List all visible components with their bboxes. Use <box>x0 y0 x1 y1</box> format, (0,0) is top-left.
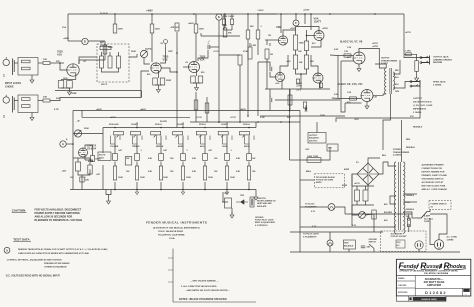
label fuse <box>424 215 433 224</box>
bias bracket <box>106 190 111 195</box>
wire tone column 5 foot <box>204 182 206 190</box>
svg-text:BLK: BLK <box>382 155 387 157</box>
svg-text:56K: 56K <box>250 26 254 28</box>
svg-text:SWITCH: SWITCH <box>369 242 377 244</box>
grid network box channel 1 <box>18 58 38 76</box>
svg-text:FENDER MUSICAL INSTRUMENTS: FENDER MUSICAL INSTRUMENTS <box>146 221 207 225</box>
labels below tone pots <box>110 145 250 148</box>
wire filter caps top <box>352 186 374 190</box>
label power transformer <box>393 149 410 157</box>
output jack J3 <box>420 56 430 65</box>
svg-text:ACCESSORY OUTLET: ACCESSORY OUTLET <box>422 181 445 184</box>
wire V1B cathode bottom <box>155 85 163 87</box>
wire V1B cathode <box>157 73 159 78</box>
ground arrow under bracket <box>108 195 110 199</box>
label caution text <box>35 209 83 223</box>
wire coupling down to tone rail <box>176 32 178 128</box>
wire rail drop x196 <box>195 14 197 24</box>
resistor R50 22K <box>80 177 90 182</box>
wire PI bottom out <box>332 97 340 100</box>
svg-text:10K: 10K <box>70 177 74 179</box>
svg-text:100K: 100K <box>299 43 305 45</box>
label to 6L6 filaments <box>305 204 317 214</box>
potentiometer P9 eq3 <box>240 132 250 138</box>
svg-text:30K POT: 30K POT <box>309 140 318 142</box>
wire tone column 3 lower <box>160 162 162 167</box>
wire ch1 box ground stub <box>31 75 33 77</box>
svg-text:2.2M: 2.2M <box>251 45 256 47</box>
wire V4A bottom <box>85 160 93 162</box>
svg-text:33K: 33K <box>56 61 60 63</box>
svg-text:NOTES: UNLESS OTHERWISE SPECI: NOTES: UNLESS OTHERWISE SPECIFIED <box>179 298 227 301</box>
wire y36 link <box>201 35 240 37</box>
node A note circle <box>4 247 10 253</box>
potentiometer P7 eq1 <box>196 132 206 138</box>
wire tone column 5 upper <box>204 136 206 154</box>
svg-text:100K: 100K <box>186 177 191 179</box>
label to pilot light <box>303 234 320 239</box>
svg-text:1000PF: 1000PF <box>177 124 185 126</box>
resistor R21 270K <box>238 55 242 65</box>
wire eq net wiring <box>73 157 90 159</box>
ground V2A cathode <box>195 85 199 91</box>
hum balance pot <box>343 240 355 249</box>
svg-text:BALANCE: BALANCE <box>344 244 354 247</box>
capacitor C7b .1 600V <box>230 19 233 25</box>
wire rail drop x248 <box>247 14 249 30</box>
svg-text:CONNECTIONS FOR: CONNECTIONS FOR <box>422 168 443 170</box>
svg-text:F: F <box>295 21 297 25</box>
wire R26 bottom <box>266 59 268 89</box>
wire accessory drop <box>418 249 420 252</box>
capacitor C20 .047 <box>113 154 118 161</box>
wire ch2 box ground stub <box>31 113 33 115</box>
ground switch S2 <box>369 239 378 249</box>
svg-text:6.3V: 6.3V <box>352 225 357 227</box>
wire V9 cathode <box>366 102 368 104</box>
diode CR7 zener box <box>225 198 232 208</box>
wire x296 drop <box>295 14 297 20</box>
wire to output jack <box>404 54 422 57</box>
ground zener <box>230 212 234 218</box>
capacitor C23 .1 <box>181 154 186 161</box>
wire x258 long drop <box>257 62 259 116</box>
wire bridge top lead <box>368 158 380 163</box>
svg-text:6L6GC V6, V7, V8: 6L6GC V6, V7, V8 <box>340 40 363 44</box>
svg-text:33K: 33K <box>43 97 47 99</box>
wire R31 links <box>289 89 291 111</box>
node D <box>82 38 88 44</box>
svg-text:REVERB: REVERB <box>433 62 443 64</box>
ground bracket <box>107 198 111 204</box>
wire R26 top <box>266 40 268 45</box>
svg-text:+172V: +172V <box>196 117 203 119</box>
svg-text:12AT7: 12AT7 <box>314 19 322 23</box>
svg-text:80MF: 80MF <box>342 185 348 187</box>
svg-text:1: 1 <box>3 74 5 78</box>
resistor R53 footswitch net <box>88 165 92 174</box>
svg-text:CHOKE: CHOKE <box>5 85 14 88</box>
svg-text:6.8K: 6.8K <box>236 158 241 160</box>
triode V4A 12AU7A <box>79 145 97 158</box>
triode V1B 7025 <box>151 55 169 74</box>
svg-text:700Ω: 700Ω <box>99 157 104 159</box>
svg-text:FULLERTON, CALIFORNIA: FULLERTON, CALIFORNIA <box>424 272 449 275</box>
svg-text:10PF: 10PF <box>168 51 174 53</box>
wire rail drop x115 <box>114 14 116 24</box>
svg-text:BIAS: BIAS <box>306 170 311 173</box>
labels T1 secondary colors <box>384 195 415 222</box>
wire tone stack top rail <box>103 127 256 129</box>
wire driver bottom rail <box>265 88 330 90</box>
svg-text:2: 2 <box>3 115 5 119</box>
wire tone stack bottom rail <box>103 189 256 191</box>
bridge rectifier CR1-CR4 <box>357 163 379 185</box>
wire mid rail left drop <box>72 111 74 169</box>
wire ch2 box to R7 <box>38 100 43 102</box>
svg-text:READING TAKEN WITH AC SIGNAL F: READING TAKEN WITH AC SIGNAL FOR 10 WATT… <box>18 248 108 251</box>
svg-text:200 WATTS R.M.S.: 200 WATTS R.M.S. <box>413 101 432 104</box>
wire C9 to x219 <box>210 46 219 48</box>
svg-text:+470V: +470V <box>354 182 361 185</box>
wire V3B plate <box>280 55 288 72</box>
resistor R41 100K <box>113 166 116 180</box>
svg-text:1.5K: 1.5K <box>347 47 352 49</box>
wire filament run <box>300 206 328 208</box>
svg-text:D-2407: D-2407 <box>381 62 389 65</box>
svg-text:+160: +160 <box>275 83 279 85</box>
resistor R60 bias 15K <box>372 210 376 219</box>
wire switch fuse run <box>345 213 409 215</box>
wire OT bottom to power transformer <box>383 94 391 150</box>
wire PI bottoms join <box>296 69 307 74</box>
node dots on rail right <box>280 13 376 15</box>
svg-text:+70.6: +70.6 <box>296 90 301 92</box>
fender rogers rhodes logo <box>399 261 467 271</box>
svg-text:+250V: +250V <box>290 28 297 30</box>
svg-text:+460V: +460V <box>188 22 195 25</box>
svg-text:OUTLET SOCKET: OUTLET SOCKET <box>391 236 408 238</box>
svg-text:5.6K: 5.6K <box>334 94 339 96</box>
pilot lamp I1 <box>327 240 333 246</box>
node junction dots on B+ rail <box>114 13 259 15</box>
svg-text:250K A: 250K A <box>199 123 206 126</box>
capacitor C41 filter 80MF <box>363 190 368 201</box>
resistor R42 100K <box>135 166 138 180</box>
svg-text:100K: 100K <box>118 177 123 179</box>
wire OT secondary taps <box>393 60 400 74</box>
svg-text:D.C. VOLTAGES READ WITH NO SIG: D.C. VOLTAGES READ WITH NO SIGNAL INPUT <box>6 275 61 278</box>
svg-text:+470V: +470V <box>110 116 117 119</box>
node dots y122 <box>218 121 282 123</box>
label FENDER MUSICAL INSTRUMENTS <box>146 221 207 241</box>
wire x305 drop <box>304 14 306 24</box>
capacitor C9 .1 coupling <box>207 43 210 49</box>
svg-text:V1A: V1A <box>57 52 62 56</box>
wire x219 to PI <box>219 47 240 55</box>
wire node A stub <box>66 143 73 145</box>
capacitor C25 .1 <box>225 154 230 161</box>
node dots x289 <box>289 110 291 123</box>
wire V4A cathode <box>84 157 86 160</box>
wire rail drop x152 <box>151 14 153 24</box>
wire V2A plate <box>195 33 197 61</box>
resistor R35 grid stopper 2 <box>350 97 357 100</box>
svg-text:CHARLIE GRAY: CHARLIE GRAY <box>421 298 437 301</box>
svg-text:4 AMP: 4 AMP <box>424 215 431 218</box>
vertical pair x250 <box>249 43 251 47</box>
wire V5A plate <box>296 27 320 31</box>
svg-text:100K: 100K <box>230 177 235 179</box>
svg-text:1300 E. VALENCIA DRIVE: 1300 E. VALENCIA DRIVE <box>158 230 184 233</box>
resistor R16 100K plate V2A <box>194 24 204 33</box>
revision table border <box>168 249 256 303</box>
wire bright box out <box>129 54 137 57</box>
label drawing number D12682 <box>425 288 470 296</box>
resistor R19 470K <box>205 103 209 113</box>
wire to node D <box>68 40 82 42</box>
svg-text:+460V: +460V <box>96 108 103 111</box>
svg-text:500 PF: 500 PF <box>100 45 108 47</box>
svg-text:TREBLE: TREBLE <box>132 146 140 148</box>
wire V2A plate out <box>198 50 208 61</box>
wire mid drops to y122 <box>248 39 258 55</box>
svg-text:GRN/BLK: GRN/BLK <box>406 209 415 211</box>
wire to speaker jack <box>401 82 411 89</box>
svg-text:100K: 100K <box>140 177 145 179</box>
label TEST DATA heading <box>13 238 31 242</box>
svg-text:POWER: POWER <box>393 149 401 151</box>
wire bridge leads <box>352 174 357 186</box>
svg-text:MIDDLE: MIDDLE <box>156 146 164 148</box>
label output jack <box>433 56 452 65</box>
wire eq net drop 2 <box>89 158 91 165</box>
resistor R20 47K <box>223 28 232 37</box>
wire power upper rail <box>290 231 383 233</box>
wire V1A plate drop <box>78 60 80 64</box>
svg-text:CARD 80 MFD 600 CAPACITOR IN S: CARD 80 MFD 600 CAPACITOR IN SERIES WITH… <box>18 252 90 255</box>
title block frame <box>396 259 470 296</box>
label output power spec <box>413 98 433 114</box>
svg-text:25MF: 25MF <box>72 93 78 95</box>
svg-text:6.8K: 6.8K <box>236 171 241 173</box>
speaker jack J4 <box>410 80 420 88</box>
capacitor C35 footswitch net <box>76 162 81 171</box>
svg-text:22K: 22K <box>310 61 314 63</box>
wire AC plug lead 2 <box>439 218 447 240</box>
labels above tone rail <box>109 123 250 126</box>
potentiometer volume 250KA <box>140 47 152 57</box>
beam tetrode V6 6L6GC <box>353 52 365 64</box>
wire hum balance leads <box>348 249 350 252</box>
svg-text:2. ALL CAPACITOR VALUES IN MFD: 2. ALL CAPACITOR VALUES IN MFD <box>181 285 217 288</box>
wire mid power column lower <box>299 227 301 252</box>
wire tone column 3 upper <box>160 136 162 154</box>
svg-text:6.8K: 6.8K <box>148 171 153 173</box>
wire rail y116 right part <box>260 115 345 117</box>
svg-text:+460V: +460V <box>146 10 153 13</box>
svg-text:400Hz: 400Hz <box>244 145 250 148</box>
wire jack1 to grid box <box>14 62 18 64</box>
wire V9 screen <box>345 102 362 104</box>
svg-text:+170V: +170V <box>230 117 237 119</box>
wire PI top out <box>330 54 338 57</box>
label AC cord <box>447 236 458 242</box>
label product of CBS caption <box>400 270 459 276</box>
svg-text:1.5K: 1.5K <box>373 97 378 99</box>
power switch dashed box <box>429 201 451 210</box>
wire tone column 7 foot <box>248 182 250 190</box>
svg-text:TRANSFORMER: TRANSFORMER <box>381 59 398 62</box>
svg-text:E: E <box>218 15 220 19</box>
wire cathode pair top <box>61 79 76 81</box>
wire C14 drop <box>269 89 271 98</box>
label accessory outlet <box>391 232 408 238</box>
triode V5A 12AT7 <box>314 17 325 41</box>
label speaker jack <box>433 81 446 87</box>
wire node E drop <box>218 20 220 47</box>
ground V1A cathode <box>68 89 72 95</box>
svg-text:+40: +40 <box>77 120 80 123</box>
svg-text:+460V: +460V <box>63 37 70 40</box>
wire C14 to rail <box>269 102 271 110</box>
triode V1A 7025 <box>57 50 79 77</box>
svg-text:25MF: 25MF <box>166 80 172 82</box>
wire zener to ground <box>231 208 233 214</box>
capacitor C6 coupling top <box>164 40 168 48</box>
label CAUTION heading <box>12 208 27 212</box>
wire balance to PI <box>316 122 318 133</box>
resistor R30 22K <box>304 55 308 69</box>
wire left column to bottom rail <box>72 168 74 190</box>
resistor R43 100K <box>159 166 162 180</box>
svg-text:CAUTION: CAUTION <box>12 208 26 212</box>
wire V2B grid <box>265 39 278 41</box>
svg-text:100K: 100K <box>155 29 161 31</box>
wire mid rail y122 <box>190 121 300 123</box>
wire power bottom rail <box>290 251 460 253</box>
dashed box dr chokes <box>315 174 345 188</box>
svg-text:10K: 10K <box>298 51 302 53</box>
wire tone column 4 upper <box>182 136 184 154</box>
node E <box>216 14 222 20</box>
svg-text:A PRODUCT OF CBS MUSICAL INSTR: A PRODUCT OF CBS MUSICAL INSTRUMENTS • A… <box>400 270 459 273</box>
triode V2A 7025 <box>189 55 206 73</box>
wire fuse top <box>409 214 412 218</box>
svg-text:80MF: 80MF <box>344 169 350 171</box>
wire x311 drop <box>310 14 312 30</box>
wire V6 cathode <box>358 64 360 66</box>
labels beside lattice columns <box>126 158 256 173</box>
title block left column <box>396 275 415 296</box>
svg-text:BRKT & EQUALIZERS: BRKT & EQUALIZERS <box>255 221 276 224</box>
node F <box>293 20 299 26</box>
svg-text:BALANCE: BALANCE <box>309 137 319 140</box>
wire T1 right leads <box>403 193 417 195</box>
resistor R33 grid stopper <box>344 54 351 57</box>
capacitor C30 filter <box>250 197 254 207</box>
resistor R45 100K <box>203 166 206 180</box>
svg-text:270K: 270K <box>243 51 248 53</box>
wire V6 screen <box>341 60 354 62</box>
svg-text:100K: 100K <box>118 29 124 31</box>
wire eq net bottoms <box>78 169 90 175</box>
wire plate V1A <box>79 59 105 61</box>
resistor R14 47K on x177 <box>171 23 180 31</box>
wire ground bus drop <box>141 91 143 98</box>
svg-text:CAUTION: CAUTION <box>257 197 266 200</box>
labels OT secondary colors <box>395 70 400 93</box>
svg-text:6.3V: 6.3V <box>312 226 317 228</box>
wire R19 drop <box>206 97 208 122</box>
power transformer T1 <box>394 162 405 233</box>
svg-text:RED/BLK: RED/BLK <box>406 147 415 149</box>
wire fuse bottom <box>408 227 410 233</box>
capacitor C40 filter 80MF <box>355 190 360 201</box>
svg-text:V1A: V1A <box>62 26 66 29</box>
wire tone right edge <box>255 122 257 128</box>
wire bright box bottom <box>102 68 119 72</box>
wire snubber ground <box>416 71 418 75</box>
capacitor C26 .047 <box>247 154 252 161</box>
svg-text:6.8K: 6.8K <box>148 158 153 160</box>
svg-text:1M: 1M <box>268 35 271 37</box>
resistor R32 470K <box>296 79 299 84</box>
wire cathode pair bottom <box>61 88 70 89</box>
svg-text:.1 600V: .1 600V <box>257 10 264 12</box>
svg-text:TO PILOT LIGHT: TO PILOT LIGHT <box>303 234 320 236</box>
wire PI x306 mid <box>306 51 308 56</box>
svg-text:(A DIVISION OF CBS MUSICAL INS: (A DIVISION OF CBS MUSICAL INSTRUMENTS) <box>153 226 200 229</box>
svg-text:AND A.C. CORD CHANGE: AND A.C. CORD CHANGE <box>422 188 448 191</box>
wire 6L6 screen bus <box>341 61 345 112</box>
svg-text:.1 2KV: .1 2KV <box>405 51 412 53</box>
title block bottom appendage <box>396 296 446 301</box>
svg-text:D12682: D12682 <box>425 291 447 295</box>
svg-text:100K: 100K <box>222 25 227 27</box>
wire V3B cathode drop <box>281 82 283 89</box>
wire rail drop x225 <box>224 14 226 28</box>
wire V3B grid stub <box>270 72 275 77</box>
wire bias pot right <box>365 214 374 219</box>
wire OT secondary bottom tap <box>393 87 401 89</box>
capacitor C32 line cap <box>361 246 371 249</box>
svg-text:500 PF: 500 PF <box>101 84 108 86</box>
resistor R31 220K <box>288 95 292 105</box>
svg-text:ACCESSORY: ACCESSORY <box>391 232 404 235</box>
svg-text:V2 & V4: V2 & V4 <box>87 147 97 150</box>
wire tone column 3 foot <box>160 182 162 190</box>
resistor R39 56.2K <box>303 102 306 108</box>
wire filter rail left <box>351 174 353 226</box>
wire AC plug leads <box>430 218 434 245</box>
wire choke link <box>300 179 315 181</box>
resistor R3 33K <box>43 59 50 64</box>
svg-text:3.3M: 3.3M <box>260 117 265 119</box>
wire 6L6 grid bus vertical <box>337 56 339 99</box>
capacitor C14 .1 <box>269 96 272 102</box>
ground input box 2 <box>30 115 34 121</box>
svg-text:POWER SWITCH: POWER SWITCH <box>431 203 448 205</box>
resistor R26 1M <box>265 49 273 59</box>
triode V5B <box>313 73 323 83</box>
node A <box>60 141 66 147</box>
label zener caution <box>257 197 276 208</box>
svg-text:INSULATE: INSULATE <box>257 205 267 208</box>
svg-text:10K: 10K <box>299 62 303 64</box>
svg-text:100K: 100K <box>163 177 168 179</box>
svg-text:HEAT SINK AND: HEAT SINK AND <box>257 202 272 205</box>
